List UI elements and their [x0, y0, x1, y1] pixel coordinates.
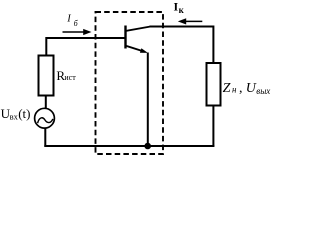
junction node: [144, 143, 151, 150]
dashed box around transistor: [96, 12, 164, 154]
svg-text:U: U: [246, 81, 257, 96]
wire bottom rail: [44, 145, 214, 147]
wire load to bottom rail: [212, 106, 214, 147]
transistor Q1 collector line: [126, 27, 151, 31]
sine symbol inside source: [38, 118, 53, 123]
svg-text:б: б: [74, 19, 79, 28]
label Iб: [66, 14, 78, 28]
svg-text:,: ,: [239, 81, 243, 96]
load Z1 body: [207, 63, 221, 106]
svg-text:Z: Z: [223, 81, 231, 96]
wire resistor to source: [45, 97, 47, 109]
svg-text:вых: вых: [256, 86, 270, 96]
svg-text:(t): (t): [18, 106, 30, 121]
svg-text:н: н: [232, 84, 237, 94]
transistor Q1 emitter arrowhead: [140, 48, 148, 53]
svg-text:I: I: [66, 14, 71, 25]
transistor Q1 base bar: [124, 26, 126, 49]
svg-text:к: к: [179, 5, 185, 15]
transistor Q1 emitter line: [126, 46, 144, 52]
resistor R1 body: [39, 56, 54, 96]
wire emitter to bottom rail: [147, 53, 149, 147]
current arrow Iк: [178, 18, 203, 24]
current arrow Iб: [63, 29, 92, 35]
label Rист: [56, 68, 76, 83]
wire collector to load (top-right): [150, 27, 214, 64]
svg-text:ист: ист: [64, 73, 76, 82]
voltage source G1 circle: [35, 108, 55, 128]
label Uвх(t): [1, 106, 31, 121]
label Iк: [174, 0, 185, 15]
wire base (top-left horizontal): [46, 38, 125, 56]
wire source to bottom rail: [44, 128, 46, 147]
label Zн , Uвых: [223, 81, 271, 96]
